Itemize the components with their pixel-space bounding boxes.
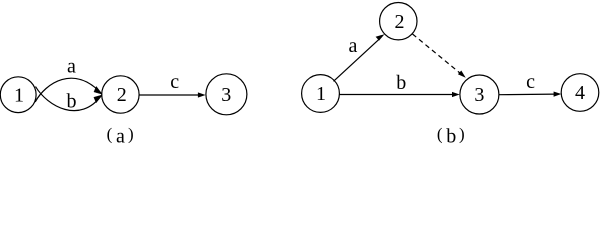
- svg-text:(: (: [437, 125, 443, 144]
- node 2 (a): [102, 76, 139, 113]
- svg-text:c: c: [170, 71, 179, 93]
- edge a 1->2: [334, 34, 385, 81]
- node 1 (b): [302, 75, 340, 113]
- edge b arc 1->2: [36, 87, 103, 111]
- caption (b): [437, 125, 465, 148]
- svg-text:): ): [128, 125, 134, 144]
- svg-text:3: 3: [221, 84, 231, 106]
- svg-text:b: b: [446, 126, 456, 148]
- svg-text:2: 2: [117, 84, 127, 106]
- svg-text:3: 3: [474, 84, 484, 106]
- svg-text:1: 1: [14, 84, 24, 106]
- dashed edge 2->3: [413, 34, 466, 78]
- node 3 (b): [460, 75, 499, 114]
- svg-text:b: b: [67, 91, 77, 113]
- node 2 (b): [380, 3, 417, 40]
- svg-text:1: 1: [316, 83, 326, 105]
- svg-text:(: (: [107, 125, 113, 144]
- caption (a): [107, 125, 134, 148]
- node 1 (a): [0, 77, 36, 113]
- svg-text:b: b: [396, 72, 406, 94]
- edge c 2->3: [139, 92, 206, 97]
- node 3 (a): [206, 74, 247, 115]
- edge c 3->4: [499, 92, 561, 97]
- edge a arc 1->2: [35, 78, 102, 102]
- svg-text:): ): [459, 125, 465, 144]
- node 4 (b): [561, 74, 599, 112]
- svg-text:2: 2: [395, 11, 405, 33]
- edge b 1->3: [340, 92, 460, 97]
- svg-text:c: c: [526, 71, 535, 93]
- svg-text:a: a: [116, 126, 125, 148]
- svg-text:a: a: [349, 35, 358, 57]
- svg-text:a: a: [67, 56, 76, 78]
- svg-text:4: 4: [575, 82, 585, 104]
